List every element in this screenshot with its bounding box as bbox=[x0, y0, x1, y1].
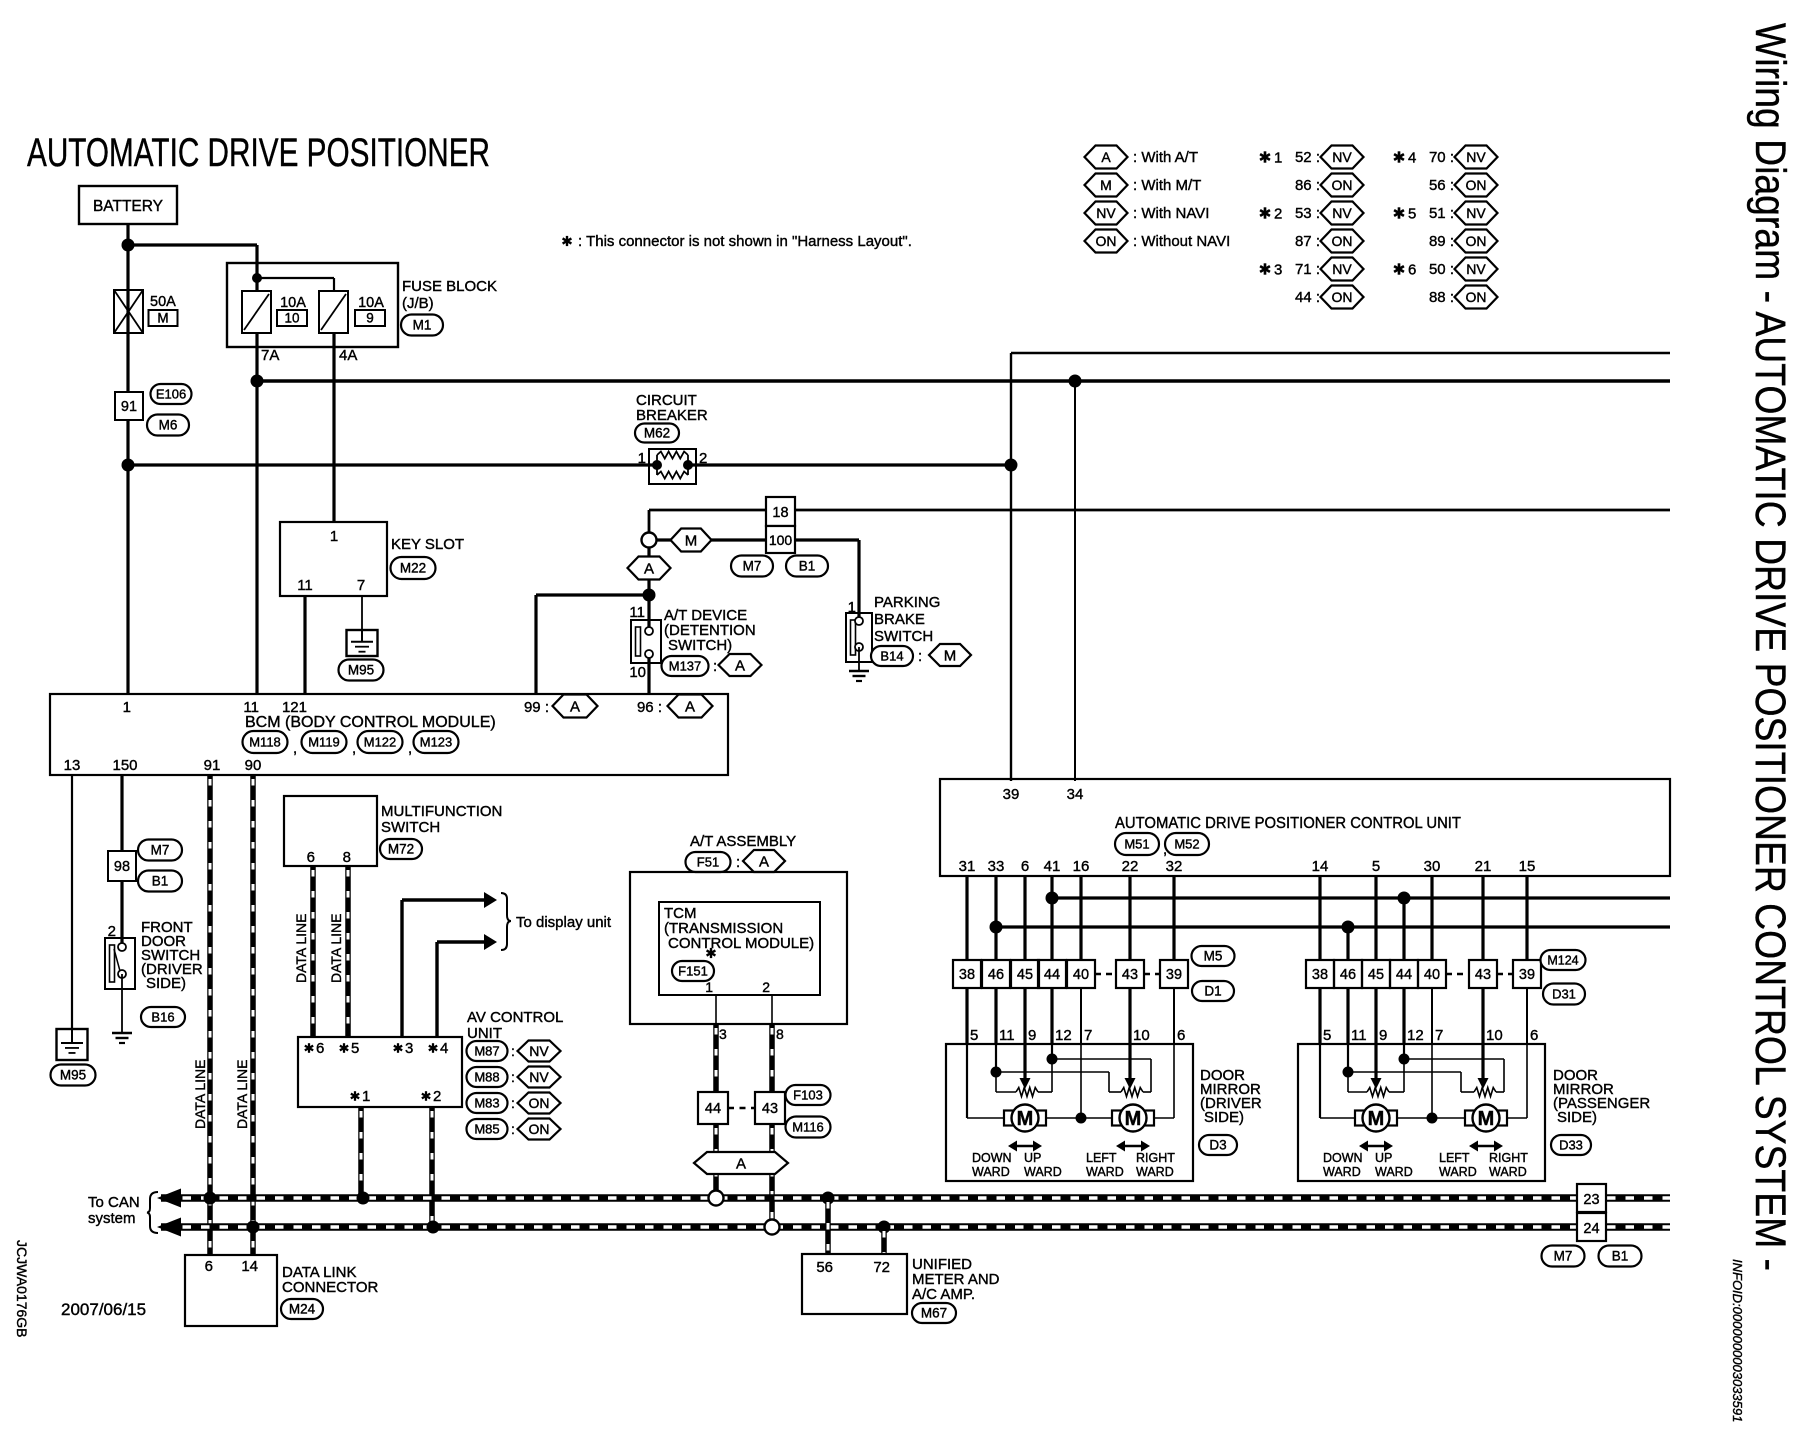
svg-text:M6: M6 bbox=[159, 418, 178, 433]
svg-text:INFOID:0000000003033591: INFOID:0000000003033591 bbox=[1730, 1259, 1745, 1422]
svg-text:43: 43 bbox=[1475, 967, 1491, 983]
svg-text:M119: M119 bbox=[308, 735, 340, 750]
svg-text:14: 14 bbox=[241, 1258, 258, 1275]
svg-text:7A: 7A bbox=[261, 347, 279, 364]
svg-text:AUTOMATIC DRIVE POSITIONER CON: AUTOMATIC DRIVE POSITIONER CONTROL UNIT bbox=[1115, 815, 1462, 832]
svg-text:DATA LINE: DATA LINE bbox=[192, 1059, 208, 1129]
svg-text:M: M bbox=[1478, 1108, 1495, 1130]
svg-text:99 :: 99 : bbox=[524, 699, 549, 716]
svg-text:DOWN: DOWN bbox=[1323, 1151, 1363, 1165]
svg-text:91: 91 bbox=[121, 399, 137, 415]
svg-text:AUTOMATIC DRIVE POSITIONER: AUTOMATIC DRIVE POSITIONER bbox=[27, 131, 490, 175]
svg-text:M1: M1 bbox=[413, 318, 432, 333]
svg-text:M7: M7 bbox=[1554, 1249, 1573, 1264]
svg-text:10: 10 bbox=[1133, 1027, 1150, 1044]
svg-text:12: 12 bbox=[1407, 1027, 1424, 1044]
svg-text:M5: M5 bbox=[1204, 949, 1223, 964]
svg-text:ON: ON bbox=[1332, 289, 1353, 305]
svg-text:ON: ON bbox=[1466, 233, 1487, 249]
svg-text:BRAKE: BRAKE bbox=[874, 611, 925, 628]
svg-text:2: 2 bbox=[762, 979, 770, 995]
svg-text:51 :: 51 : bbox=[1429, 205, 1454, 222]
svg-text:5: 5 bbox=[1323, 1027, 1331, 1044]
svg-text:46: 46 bbox=[1340, 967, 1356, 983]
svg-text:10: 10 bbox=[1486, 1027, 1503, 1044]
svg-text:NV: NV bbox=[1466, 205, 1486, 221]
svg-text:44 :: 44 : bbox=[1295, 289, 1320, 306]
svg-text:A/C AMP.: A/C AMP. bbox=[912, 1286, 975, 1303]
svg-text:WARD: WARD bbox=[1136, 1165, 1174, 1179]
svg-text:NV: NV bbox=[529, 1043, 549, 1059]
svg-text:M7: M7 bbox=[151, 843, 170, 858]
svg-text:To display unit: To display unit bbox=[516, 914, 612, 931]
svg-text:SIDE): SIDE) bbox=[1204, 1109, 1244, 1126]
svg-text:M83: M83 bbox=[474, 1096, 499, 1111]
svg-text:89 :: 89 : bbox=[1429, 233, 1454, 250]
svg-text:41: 41 bbox=[1044, 858, 1061, 875]
svg-text:A: A bbox=[570, 698, 580, 715]
svg-text:44: 44 bbox=[705, 1101, 721, 1117]
svg-text:96 :: 96 : bbox=[637, 699, 662, 716]
svg-text:ON: ON bbox=[529, 1095, 550, 1111]
svg-text:4: 4 bbox=[440, 1040, 448, 1057]
svg-text:45: 45 bbox=[1017, 967, 1033, 983]
svg-text:M62: M62 bbox=[644, 426, 670, 441]
svg-text:4A: 4A bbox=[339, 347, 357, 364]
svg-text:M72: M72 bbox=[388, 842, 414, 857]
svg-text::: : bbox=[713, 658, 717, 675]
svg-text:5: 5 bbox=[1408, 206, 1416, 223]
svg-text:D1: D1 bbox=[1204, 984, 1221, 999]
svg-text:B1: B1 bbox=[1612, 1249, 1629, 1264]
svg-text:72: 72 bbox=[873, 1259, 890, 1276]
svg-text:15: 15 bbox=[1519, 858, 1536, 875]
svg-text:SIDE): SIDE) bbox=[1557, 1109, 1597, 1126]
svg-text:1: 1 bbox=[330, 528, 338, 545]
svg-text:M123: M123 bbox=[420, 735, 453, 750]
svg-text:1: 1 bbox=[362, 1088, 370, 1105]
svg-text:7: 7 bbox=[1435, 1027, 1443, 1044]
svg-text:CONNECTOR: CONNECTOR bbox=[282, 1279, 379, 1296]
svg-text:88 :: 88 : bbox=[1429, 289, 1454, 306]
svg-text:A: A bbox=[735, 657, 745, 674]
svg-text:M: M bbox=[1368, 1108, 1385, 1130]
svg-text:UNIT: UNIT bbox=[467, 1025, 502, 1042]
svg-text:,: , bbox=[352, 740, 356, 757]
svg-text:NV: NV bbox=[1332, 149, 1352, 165]
svg-text:3: 3 bbox=[1274, 262, 1282, 279]
svg-text:8: 8 bbox=[343, 849, 351, 866]
svg-text:NV: NV bbox=[1332, 261, 1352, 277]
svg-text:A: A bbox=[1101, 149, 1111, 165]
svg-text:DATA LINE: DATA LINE bbox=[234, 1059, 250, 1129]
svg-text:: This connector is not shown: : This connector is not shown in "Harnes… bbox=[578, 233, 912, 250]
svg-text:UP: UP bbox=[1024, 1151, 1041, 1165]
svg-text:30: 30 bbox=[1424, 858, 1441, 875]
svg-text:WARD: WARD bbox=[1489, 1165, 1527, 1179]
svg-text:CONTROL MODULE): CONTROL MODULE) bbox=[668, 935, 814, 952]
svg-text:SWITCH: SWITCH bbox=[874, 628, 933, 645]
svg-text:BCM (BODY CONTROL MODULE): BCM (BODY CONTROL MODULE) bbox=[245, 714, 496, 731]
svg-text:M22: M22 bbox=[400, 561, 426, 576]
svg-text:39: 39 bbox=[1166, 967, 1182, 983]
svg-text:,: , bbox=[408, 740, 412, 757]
svg-text:39: 39 bbox=[1519, 967, 1535, 983]
svg-text:52 :: 52 : bbox=[1295, 149, 1320, 166]
svg-text:86 :: 86 : bbox=[1295, 177, 1320, 194]
svg-text:11: 11 bbox=[999, 1027, 1015, 1044]
svg-text:system: system bbox=[88, 1210, 136, 1227]
svg-text:6: 6 bbox=[1408, 262, 1416, 279]
svg-text::: : bbox=[511, 1069, 515, 1085]
svg-text:34: 34 bbox=[1067, 786, 1084, 803]
svg-text:100: 100 bbox=[769, 532, 793, 548]
svg-text:: With NAVI: : With NAVI bbox=[1133, 205, 1209, 222]
svg-text:24: 24 bbox=[1583, 1221, 1599, 1237]
svg-text:11: 11 bbox=[1351, 1027, 1367, 1044]
svg-text:5: 5 bbox=[970, 1027, 978, 1044]
svg-text:DATA LINE: DATA LINE bbox=[328, 913, 344, 983]
svg-text:AV CONTROL: AV CONTROL bbox=[467, 1009, 563, 1026]
svg-text:38: 38 bbox=[1312, 967, 1328, 983]
svg-text:M: M bbox=[1125, 1108, 1142, 1130]
svg-text:M51: M51 bbox=[1124, 837, 1149, 852]
svg-text:M: M bbox=[944, 647, 957, 664]
svg-text:M24: M24 bbox=[289, 1302, 316, 1317]
svg-text:M52: M52 bbox=[1174, 837, 1199, 852]
svg-text:14: 14 bbox=[1312, 858, 1329, 875]
svg-text:M7: M7 bbox=[743, 559, 762, 574]
svg-text:1: 1 bbox=[705, 979, 713, 995]
svg-text:LEFT: LEFT bbox=[1086, 1151, 1117, 1165]
svg-text:WARD: WARD bbox=[1323, 1165, 1361, 1179]
svg-text:WARD: WARD bbox=[1086, 1165, 1124, 1179]
svg-text:A: A bbox=[736, 1155, 746, 1172]
svg-text:NV: NV bbox=[529, 1069, 549, 1085]
svg-text:SWITCH): SWITCH) bbox=[668, 637, 732, 654]
svg-text:M87: M87 bbox=[474, 1044, 499, 1059]
svg-text:: Without NAVI: : Without NAVI bbox=[1133, 233, 1230, 250]
svg-text:1: 1 bbox=[638, 450, 646, 467]
svg-text:33: 33 bbox=[988, 858, 1005, 875]
svg-text:45: 45 bbox=[1368, 967, 1384, 983]
svg-text:M: M bbox=[157, 311, 168, 326]
svg-text:10A: 10A bbox=[280, 295, 306, 311]
svg-text:A: A bbox=[759, 853, 769, 870]
svg-text:50A: 50A bbox=[150, 294, 176, 310]
svg-text:6: 6 bbox=[1530, 1027, 1538, 1044]
svg-text:1: 1 bbox=[1274, 150, 1282, 167]
svg-text:D33: D33 bbox=[1559, 1138, 1583, 1153]
svg-text:WARD: WARD bbox=[1024, 1165, 1062, 1179]
svg-text:44: 44 bbox=[1044, 967, 1060, 983]
svg-text:56 :: 56 : bbox=[1429, 177, 1454, 194]
svg-text:40: 40 bbox=[1424, 967, 1440, 983]
svg-text:ON: ON bbox=[1332, 177, 1353, 193]
svg-text:ON: ON bbox=[1332, 233, 1353, 249]
svg-text:70 :: 70 : bbox=[1429, 149, 1454, 166]
svg-text:40: 40 bbox=[1073, 967, 1089, 983]
svg-text:90: 90 bbox=[245, 757, 262, 774]
svg-text:M124: M124 bbox=[1547, 953, 1578, 967]
svg-text:MULTIFUNCTION: MULTIFUNCTION bbox=[381, 803, 502, 820]
svg-text:SWITCH: SWITCH bbox=[381, 819, 440, 836]
svg-text:5: 5 bbox=[351, 1040, 359, 1057]
svg-text:M67: M67 bbox=[921, 1306, 947, 1321]
svg-text:6: 6 bbox=[205, 1258, 213, 1275]
svg-text:M137: M137 bbox=[669, 659, 702, 674]
svg-text:43: 43 bbox=[1122, 967, 1138, 983]
svg-text:D3: D3 bbox=[1209, 1138, 1226, 1153]
svg-text:WARD: WARD bbox=[972, 1165, 1010, 1179]
svg-text:ON: ON bbox=[529, 1121, 550, 1137]
svg-text:M118: M118 bbox=[249, 735, 281, 750]
svg-text:18: 18 bbox=[772, 505, 788, 521]
svg-text:10A: 10A bbox=[358, 295, 384, 311]
svg-text:UP: UP bbox=[1375, 1151, 1392, 1165]
svg-text:F103: F103 bbox=[793, 1088, 823, 1103]
svg-text:M116: M116 bbox=[792, 1120, 824, 1135]
svg-text:RIGHT: RIGHT bbox=[1489, 1151, 1528, 1165]
svg-text:6: 6 bbox=[1021, 858, 1029, 875]
svg-text:M122: M122 bbox=[364, 735, 397, 750]
svg-text:6: 6 bbox=[1177, 1027, 1185, 1044]
svg-text:WARD: WARD bbox=[1439, 1165, 1477, 1179]
svg-text:87 :: 87 : bbox=[1295, 233, 1320, 250]
svg-text:B14: B14 bbox=[880, 649, 903, 664]
svg-text:PARKING: PARKING bbox=[874, 594, 940, 611]
svg-text:F151: F151 bbox=[678, 964, 708, 979]
svg-text:16: 16 bbox=[1073, 858, 1090, 875]
svg-text:B1: B1 bbox=[152, 874, 169, 889]
svg-text:31: 31 bbox=[959, 858, 976, 875]
svg-text:M: M bbox=[1017, 1108, 1034, 1130]
svg-text:2: 2 bbox=[699, 450, 707, 467]
svg-text:WARD: WARD bbox=[1375, 1165, 1413, 1179]
svg-text:BREAKER: BREAKER bbox=[636, 407, 708, 424]
svg-text:91: 91 bbox=[204, 757, 221, 774]
svg-text::: : bbox=[511, 1043, 515, 1059]
svg-text:22: 22 bbox=[1122, 858, 1139, 875]
svg-text:M: M bbox=[685, 532, 698, 549]
svg-text:10: 10 bbox=[284, 311, 299, 326]
svg-text:71 :: 71 : bbox=[1295, 261, 1320, 278]
svg-text:NV: NV bbox=[1466, 149, 1486, 165]
svg-text:FUSE BLOCK: FUSE BLOCK bbox=[402, 278, 497, 295]
svg-text:5: 5 bbox=[1372, 858, 1380, 875]
svg-text:: With A/T: : With A/T bbox=[1133, 149, 1198, 166]
svg-text:44: 44 bbox=[1396, 967, 1412, 983]
svg-text:38: 38 bbox=[959, 967, 975, 983]
svg-text:21: 21 bbox=[1475, 858, 1492, 875]
svg-text:13: 13 bbox=[64, 757, 81, 774]
svg-text:98: 98 bbox=[114, 859, 130, 875]
svg-text:M88: M88 bbox=[474, 1070, 499, 1085]
svg-text::: : bbox=[918, 648, 922, 665]
svg-text:A: A bbox=[644, 560, 654, 577]
svg-text:ON: ON bbox=[1466, 289, 1487, 305]
svg-text:M95: M95 bbox=[348, 663, 374, 678]
svg-text:23: 23 bbox=[1583, 1192, 1599, 1208]
svg-text:2007/06/15: 2007/06/15 bbox=[61, 1300, 146, 1319]
svg-text:150: 150 bbox=[112, 757, 137, 774]
svg-text:3: 3 bbox=[405, 1040, 413, 1057]
svg-text:A: A bbox=[685, 698, 695, 715]
svg-text:JCJWA0176GB: JCJWA0176GB bbox=[14, 1240, 30, 1338]
svg-text:46: 46 bbox=[988, 967, 1004, 983]
svg-text:DATA LINE: DATA LINE bbox=[293, 913, 309, 983]
svg-text:7: 7 bbox=[1084, 1027, 1092, 1044]
svg-text:4: 4 bbox=[1408, 150, 1416, 167]
svg-text:6: 6 bbox=[316, 1040, 324, 1057]
svg-text:E106: E106 bbox=[156, 387, 186, 402]
svg-text:7: 7 bbox=[357, 577, 365, 594]
svg-text:To CAN: To CAN bbox=[88, 1194, 140, 1211]
svg-text:50 :: 50 : bbox=[1429, 261, 1454, 278]
svg-text:M85: M85 bbox=[474, 1122, 499, 1137]
svg-text:10: 10 bbox=[629, 664, 646, 681]
svg-text:9: 9 bbox=[366, 311, 374, 326]
svg-text:Wiring Diagram - AUTOMATIC DRI: Wiring Diagram - AUTOMATIC DRIVE POSITIO… bbox=[1746, 23, 1794, 1271]
svg-text:F51: F51 bbox=[697, 855, 719, 870]
svg-text:11: 11 bbox=[629, 604, 645, 621]
svg-text:39: 39 bbox=[1003, 786, 1020, 803]
svg-text:,: , bbox=[293, 740, 297, 757]
svg-text:A/T ASSEMBLY: A/T ASSEMBLY bbox=[690, 833, 796, 850]
svg-text:11: 11 bbox=[297, 577, 313, 594]
svg-text:: With M/T: : With M/T bbox=[1133, 177, 1201, 194]
svg-text:32: 32 bbox=[1166, 858, 1183, 875]
svg-text:53 :: 53 : bbox=[1295, 205, 1320, 222]
svg-text:2: 2 bbox=[1274, 206, 1282, 223]
svg-text:LEFT: LEFT bbox=[1439, 1151, 1470, 1165]
svg-text:M: M bbox=[1100, 177, 1112, 193]
svg-text:SIDE): SIDE) bbox=[146, 975, 186, 992]
svg-text:43: 43 bbox=[762, 1101, 778, 1117]
svg-text:8: 8 bbox=[776, 1026, 784, 1042]
svg-text:2: 2 bbox=[433, 1088, 441, 1105]
svg-text:6: 6 bbox=[307, 849, 315, 866]
svg-text:9: 9 bbox=[1028, 1027, 1036, 1044]
svg-text:ON: ON bbox=[1096, 233, 1117, 249]
svg-text::: : bbox=[511, 1095, 515, 1111]
svg-text:B1: B1 bbox=[799, 559, 816, 574]
svg-text:NV: NV bbox=[1332, 205, 1352, 221]
svg-text:3: 3 bbox=[719, 1026, 727, 1042]
svg-text:ON: ON bbox=[1466, 177, 1487, 193]
svg-text:NV: NV bbox=[1096, 205, 1116, 221]
svg-text:12: 12 bbox=[1055, 1027, 1072, 1044]
svg-text:1: 1 bbox=[123, 699, 131, 716]
svg-text:56: 56 bbox=[816, 1259, 833, 1276]
svg-text:B16: B16 bbox=[151, 1010, 174, 1025]
svg-text:(J/B): (J/B) bbox=[402, 295, 434, 312]
svg-text:KEY SLOT: KEY SLOT bbox=[391, 536, 464, 553]
svg-text:BATTERY: BATTERY bbox=[93, 198, 163, 215]
svg-text::: : bbox=[511, 1121, 515, 1137]
svg-text:D31: D31 bbox=[1552, 987, 1576, 1002]
svg-text::: : bbox=[736, 854, 740, 871]
svg-text:9: 9 bbox=[1379, 1027, 1387, 1044]
svg-text:NV: NV bbox=[1466, 261, 1486, 277]
svg-text:RIGHT: RIGHT bbox=[1136, 1151, 1175, 1165]
svg-text:DOWN: DOWN bbox=[972, 1151, 1012, 1165]
svg-text:M95: M95 bbox=[60, 1068, 86, 1083]
